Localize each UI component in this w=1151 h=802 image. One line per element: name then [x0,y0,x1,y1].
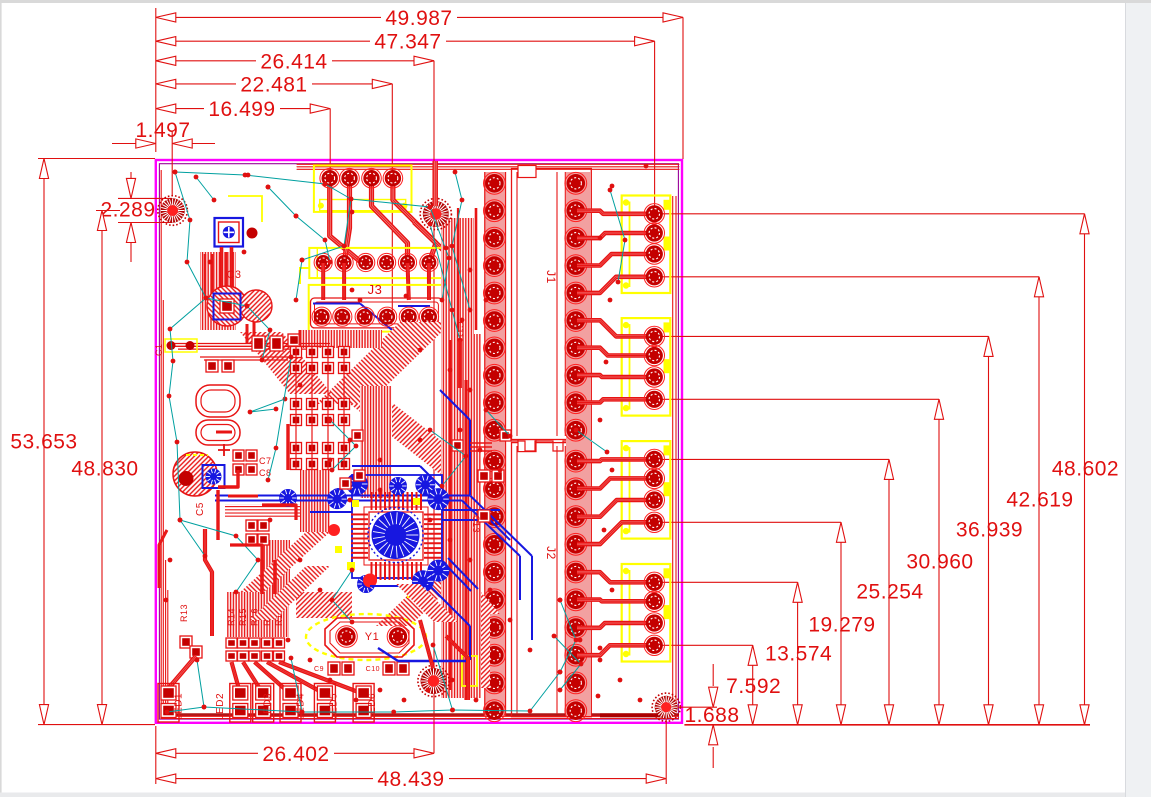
LED2 [215,684,251,723]
dimension 19.279 [808,522,875,725]
feature line 30.960 [656,398,939,400]
via V3 bottom center [418,665,449,696]
svg-text:16.499: 16.499 [208,98,275,121]
feature line 36.939 [656,335,989,337]
inductor L2 pill 2 [196,420,240,445]
svg-text:LED5: LED5 [328,693,339,720]
svg-text:48.439: 48.439 [377,768,444,791]
bottom extension lines [155,726,157,784]
connector J3 pads [312,307,439,326]
svg-text:LED6: LED6 [367,693,378,720]
top connector row2 pads [314,253,438,271]
right edge traces [673,196,676,710]
trace bundle center diag down-right [350,404,494,482]
LED6 [353,684,378,723]
dimension 13.574 [765,582,832,725]
trace bundle J3 to center (diag up-right) [316,322,452,404]
group 2 traces [577,320,654,336]
resistor R13 [179,604,202,658]
dimension 48.830 [71,211,138,725]
group 1 traces [577,211,654,214]
svg-text:LED1: LED1 [174,693,185,720]
svg-text:1.688: 1.688 [684,704,739,727]
pad column pink bands [484,172,506,716]
via V1 top-left [158,196,188,226]
top grey strip [0,0,1151,3]
dimension 22.481 [156,73,392,96]
svg-text:Y1: Y1 [365,631,379,643]
resistor R15 [238,608,249,661]
dimension 48.602 [1052,214,1119,725]
connector group 2 yellow box [622,318,671,416]
capacitors C7 C8 [233,450,272,478]
svg-text:C9: C9 [314,666,324,673]
capacitors below Y1 [314,662,354,675]
svg-text:C5: C5 [195,502,206,516]
small parts right of grid [340,430,365,489]
dimension 30.960 [906,399,973,725]
J1/J2 gap notch [511,441,589,451]
R13 to LED1 trace [167,656,196,690]
band fat traces [450,208,476,700]
dimension 42.619 [1006,277,1073,725]
dimension 1.688 [678,664,740,768]
group 3 pads [644,449,664,532]
connector J3 body [311,298,443,328]
grid column x=296 [291,346,302,470]
LED1 [158,684,185,723]
bottom right thick trace [600,713,662,717]
svg-text:1.497: 1.497 [135,119,190,142]
via V4 bottom right [652,693,680,721]
PCB outline magenta [156,160,682,723]
left edge traces [161,170,168,717]
yellow bits near IC [335,498,420,598]
IC U1 blue outline [352,475,442,578]
svg-text:LED3: LED3 [262,693,273,720]
svg-text:30.960: 30.960 [906,551,973,574]
pad column A (J2 left row) [484,172,506,721]
svg-text:26.414: 26.414 [260,50,327,73]
svg-text:C3: C3 [226,269,241,281]
svg-text:C13: C13 [471,515,481,533]
plus mark [218,444,230,456]
inductor L1 pill 1 [196,385,240,417]
top connector row2 yellow box [309,248,443,278]
right scrollbar strip [1125,3,1151,797]
bottom grey strip [0,793,1125,798]
connector J1 body [512,166,592,440]
R network to LED traces [232,662,241,694]
assorted center traces [260,560,264,594]
right dims baseline [684,724,1090,726]
resistor R18 [274,608,285,661]
dimension 7.592 [726,645,781,725]
svg-text:53.653: 53.653 [10,431,77,454]
group 4 traces [577,572,654,582]
dimension 25.254 [856,459,923,724]
dimension 1.497 [112,119,215,196]
component C1 left edge [154,339,197,356]
row2 to J3 stubs [323,263,429,300]
svg-text:J2: J2 [544,546,558,560]
dimension 47.347 [156,31,655,54]
svg-text:42.619: 42.619 [1006,489,1073,512]
svg-text:36.939: 36.939 [956,519,1023,542]
ratsnest lines [173,170,354,263]
pad column guide lines [485,172,506,716]
trace bundle above Y1 [376,560,478,626]
svg-text:22.481: 22.481 [240,73,307,96]
dimension 2.289 [100,172,172,262]
blue traces around IC [310,390,510,660]
svg-text:19.279: 19.279 [808,614,875,637]
dimension 48.439 [156,768,666,791]
svg-text:13.574: 13.574 [765,643,832,666]
blue power bus [215,488,532,640]
group 3 traces [577,459,654,461]
resistor R17 [262,608,273,661]
feature line 25.254 [656,458,889,460]
svg-text:LED2: LED2 [215,693,226,720]
connector group 4 yellow box [622,564,671,662]
left grey edge [0,3,2,793]
capacitor C3 hatched pads [207,286,272,326]
svg-text:J3: J3 [368,282,383,297]
J3 blue traces [313,304,430,331]
crystal Y1 body [325,618,414,657]
small component pair mid-left [246,520,269,545]
bundle to resistor grid [238,532,330,594]
resistor R16 [249,608,260,661]
dimension 36.939 [956,336,1023,724]
grid column x=312 [307,346,318,470]
top dimension extension lines [155,8,157,152]
grid column x=328 [323,346,334,470]
connector J3 yellow box [300,268,443,332]
svg-text:R14: R14 [227,608,237,626]
bottom edge traces [161,715,680,719]
grid column x=344 [339,346,350,470]
feature line 19.279 [656,521,841,523]
traces from K1 down [220,247,224,294]
via V2 top center [420,198,451,229]
trace bundle IC to bottom-right [428,568,500,614]
svg-text:C7: C7 [259,456,272,466]
group 2 pads [644,326,664,409]
crystal Y1 yellow dashed outline [306,614,426,660]
component cluster above grid [206,334,300,372]
dimension 26.414 [156,50,434,73]
svg-text:48.830: 48.830 [71,457,138,480]
switch component K1 [215,196,263,247]
svg-text:48.602: 48.602 [1052,458,1119,481]
vertical trace band left of J1 [441,218,474,334]
svg-text:J1: J1 [544,270,558,284]
group 4 pads [644,572,664,655]
group 1 pads [644,204,664,287]
top connector row1 pads [320,168,403,188]
dimension 53.653 [10,159,155,725]
top connector row1 yellow box [314,166,412,212]
blue components around IC [327,473,470,661]
svg-text:25.254: 25.254 [856,581,923,604]
extra center traces 2 [218,443,492,560]
svg-text:C1: C1 [154,343,164,356]
pad column B (J2 right row) [565,172,587,721]
LED5 [314,684,339,723]
LED3 [253,684,274,723]
dimension 16.499 [156,98,330,121]
svg-text:R13: R13 [179,604,189,622]
svg-text:26.402: 26.402 [262,743,329,766]
feature line 13.574 [656,581,798,583]
top edge trace pills [297,164,679,169]
Y1 pads [336,626,358,648]
svg-text:47.347: 47.347 [374,31,441,54]
svg-text:7.592: 7.592 [726,675,781,698]
IC U1 blue sunburst [372,511,420,559]
LED4 [280,684,306,723]
capacitor C5 (hatched circle) [173,452,225,516]
connector J2 body [512,440,592,717]
feature line 48.602 [656,213,1085,215]
IC U1 body [351,492,441,580]
pads right of IC [452,430,511,522]
feature line 42.619 [656,276,1039,278]
trace from C5 down [205,529,212,600]
svg-text:R15: R15 [238,608,248,626]
feature line 7.592 [656,644,753,646]
connector group 1 yellow box [622,196,671,294]
C3 to bus traces [246,324,249,344]
yellow strip bottom band [462,656,477,686]
PCB inner outline purple [159,164,678,719]
vertical bundle above R-network [227,592,289,637]
svg-text:C10: C10 [366,666,380,673]
dimension 26.402 [156,743,434,766]
vertical bundle above IC [360,386,392,498]
connector group 3 yellow box [622,441,671,538]
resistor R14 [226,608,237,661]
extra bundle patches [240,332,332,394]
right area dots [596,164,649,699]
svg-text:C11: C11 [455,321,465,338]
svg-text:49.987: 49.987 [385,7,452,30]
top connector traces [330,178,362,263]
horizontal bus traces [172,344,330,361]
dimension 49.987 [156,7,683,30]
